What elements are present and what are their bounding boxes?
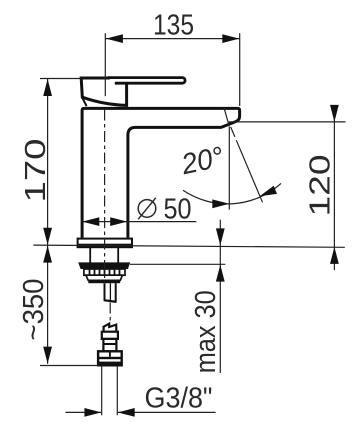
svg-text:170: 170 [20, 139, 52, 203]
svg-text:max 30: max 30 [190, 290, 222, 373]
svg-text:G3/8": G3/8" [145, 382, 213, 414]
svg-text:20°: 20° [178, 141, 227, 181]
svg-text:50: 50 [164, 193, 192, 225]
svg-text:~350: ~350 [18, 279, 50, 341]
svg-text:135: 135 [153, 10, 194, 42]
svg-text:120: 120 [305, 155, 337, 217]
